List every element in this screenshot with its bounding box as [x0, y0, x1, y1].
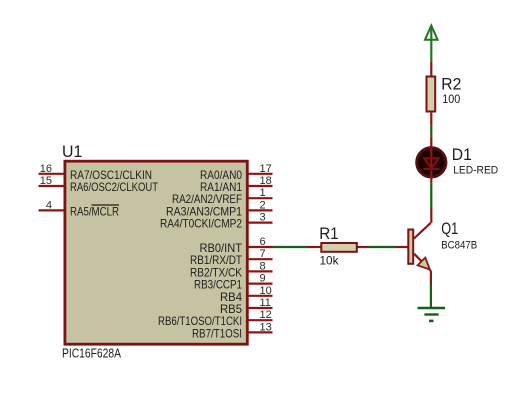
svg-text:100: 100 — [442, 92, 460, 106]
svg-text:LED-RED: LED-RED — [453, 165, 498, 177]
svg-text:13: 13 — [260, 321, 272, 333]
svg-text:7: 7 — [260, 248, 266, 260]
svg-text:18: 18 — [260, 175, 272, 187]
svg-text:U1: U1 — [62, 142, 82, 161]
svg-text:8: 8 — [260, 260, 266, 272]
svg-text:2: 2 — [260, 199, 266, 211]
svg-text:4: 4 — [46, 199, 52, 211]
svg-text:RA6/OSC2/CLKOUT: RA6/OSC2/CLKOUT — [70, 180, 159, 194]
svg-text:10: 10 — [260, 285, 272, 297]
svg-text:12: 12 — [260, 309, 272, 321]
svg-text:9: 9 — [260, 273, 266, 285]
svg-text:10k: 10k — [320, 254, 340, 268]
svg-text:16: 16 — [40, 163, 52, 175]
svg-text:11: 11 — [260, 297, 271, 309]
svg-text:17: 17 — [260, 163, 272, 175]
svg-text:RB7/T1OSI: RB7/T1OSI — [192, 326, 242, 340]
svg-text:15: 15 — [40, 175, 52, 187]
svg-text:RA4/T0CKI/CMP2: RA4/T0CKI/CMP2 — [160, 217, 242, 231]
svg-text:BC847B: BC847B — [441, 240, 477, 252]
svg-text:R1: R1 — [319, 224, 338, 243]
svg-text:6: 6 — [260, 236, 266, 248]
svg-text:3: 3 — [260, 212, 266, 224]
svg-text:1: 1 — [260, 187, 266, 199]
svg-text:RA5/MCLR: RA5/MCLR — [70, 204, 119, 218]
svg-text:D1: D1 — [452, 145, 472, 164]
svg-text:Q1: Q1 — [441, 219, 458, 238]
svg-text:PIC16F628A: PIC16F628A — [62, 346, 121, 361]
svg-text:R2: R2 — [441, 75, 461, 94]
